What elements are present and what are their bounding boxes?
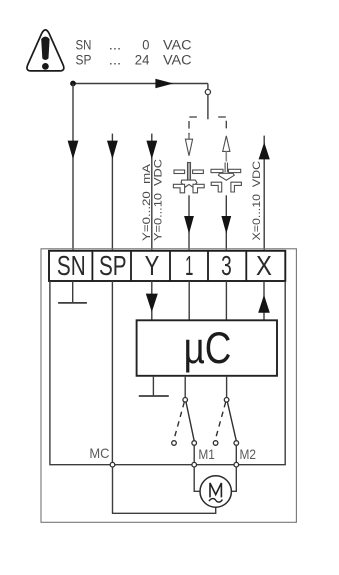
dashed branch right — [218, 117, 226, 130]
actuator enclosure — [41, 249, 296, 523]
wire 1 into uC — [188, 281, 190, 320]
svg-text:3: 3 — [221, 250, 232, 281]
svg-text:24: 24 — [135, 52, 150, 67]
ground uC — [139, 376, 169, 396]
wire X from uC — [263, 281, 265, 320]
switch S2 — [213, 376, 238, 463]
wire Y into uC — [151, 281, 153, 320]
svg-text:X: X — [256, 250, 272, 281]
arrow down Y — [146, 141, 157, 160]
svg-text:M2: M2 — [240, 447, 257, 462]
wire 3 into uC — [225, 281, 227, 320]
wire X up from terminal — [263, 136, 265, 251]
arrow down wire 3 — [221, 216, 231, 234]
wire Y down to terminal — [151, 134, 153, 251]
node MC — [110, 462, 115, 467]
arrow down wire 1 — [184, 216, 194, 234]
ground SN — [58, 281, 87, 303]
svg-text:µC: µC — [184, 324, 232, 373]
motor M — [200, 476, 231, 507]
arrow down SN — [68, 141, 79, 160]
wire stub below node — [207, 95, 209, 120]
wire corner to node circle — [207, 84, 209, 90]
node circle top — [205, 89, 210, 94]
wire SP to MC node — [111, 281, 113, 462]
wire supply horizontal — [73, 83, 208, 85]
svg-text:MC: MC — [89, 446, 109, 461]
arrow up X — [259, 142, 270, 159]
internal bus loop — [50, 281, 285, 465]
svg-text:VAC: VAC — [163, 52, 192, 67]
dashed branch left — [189, 117, 197, 138]
switch S1 — [172, 376, 197, 463]
svg-text:1: 1 — [185, 250, 193, 281]
svg-text:...: ... — [109, 38, 121, 53]
svg-text:X=0...10 VDC: X=0...10 VDC — [251, 161, 263, 241]
arrow down SP — [107, 141, 118, 160]
svg-text:SN: SN — [76, 38, 92, 53]
connector symbol left (plugged) — [173, 163, 204, 193]
svg-text:0: 0 — [142, 38, 149, 53]
connector symbol right (unplugged) — [211, 163, 241, 193]
arrow right on supply wire — [155, 79, 173, 89]
label SP 24 VAC — [76, 52, 192, 67]
arrow down Y into uC — [146, 294, 158, 313]
outline arrow down (left branch) — [185, 134, 192, 156]
svg-text:SN: SN — [57, 250, 86, 281]
svg-text:Y=0...20 mA: Y=0...20 mA — [141, 164, 153, 241]
outline arrow up (right branch) — [223, 136, 230, 162]
wire 1 down to terminal — [188, 195, 190, 251]
svg-text:...: ... — [109, 52, 121, 67]
wire SN down to terminal — [72, 84, 74, 251]
wire M1 to motor — [194, 467, 200, 491]
terminal dividers — [92, 251, 246, 281]
wire 3 down to terminal — [225, 195, 227, 251]
microcontroller uC box — [137, 320, 277, 376]
wire M2 to motor — [231, 467, 236, 491]
terminal strip box — [49, 251, 285, 281]
svg-text:Y: Y — [145, 250, 160, 281]
svg-text:Y=0...10 VDC: Y=0...10 VDC — [153, 159, 165, 241]
svg-text:SP: SP — [76, 52, 92, 67]
svg-text:SP: SP — [99, 250, 127, 281]
node M2 — [234, 462, 239, 467]
svg-text:VAC: VAC — [163, 38, 192, 53]
wire SP down to terminal — [111, 134, 113, 251]
junction dot SN supply — [70, 81, 76, 87]
label SN 0 VAC — [76, 38, 192, 53]
warning triangle — [27, 30, 64, 71]
arrow up X from uC — [258, 295, 270, 313]
wire MC to motor bottom — [113, 467, 216, 513]
svg-text:M1: M1 — [198, 447, 215, 462]
node M1 — [192, 462, 197, 467]
